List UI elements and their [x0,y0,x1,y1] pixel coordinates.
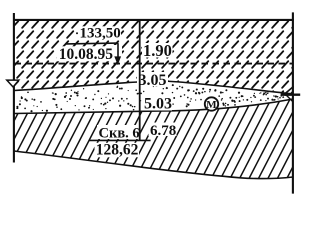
svg-text:6.78: 6.78 [150,123,176,139]
svg-text:Скв. 6: Скв. 6 [99,125,140,141]
right section edge [292,12,294,193]
svg-text:5.03: 5.03 [144,96,172,113]
water-edge mark right: lower diagonal [287,95,293,101]
borehole label underline [89,139,150,141]
arrowhead to water level [114,56,121,65]
left section edge [13,13,15,163]
sampling point circle M [205,97,218,110]
boundary: bottom of sand layer [14,99,293,114]
water-edge mark right: bar [281,94,301,96]
text halos [57,26,177,157]
water-edge mark right: upper diagonal [285,86,294,94]
sand layer stipple dots [16,84,286,113]
boundary: top of sand layer [14,81,293,94]
svg-text:128,62: 128,62 [96,141,139,158]
upper soil layer hatch (loam) [14,20,293,94]
svg-text:133,50: 133,50 [80,26,121,42]
groundwater dashed line [15,63,293,65]
water-edge triangle left [7,80,19,87]
ground surface line [14,19,294,21]
leader drop line [117,43,119,57]
svg-text:1.90: 1.90 [143,41,172,60]
boundary: bottom of section [14,151,293,179]
lower soil layer hatch [14,99,293,179]
svg-text:10.08.95: 10.08.95 [59,46,114,63]
svg-text:3.05: 3.05 [139,72,167,89]
svg-text:М: М [206,99,217,111]
leader line under 133,50 [66,42,118,45]
borehole axis [139,20,141,140]
